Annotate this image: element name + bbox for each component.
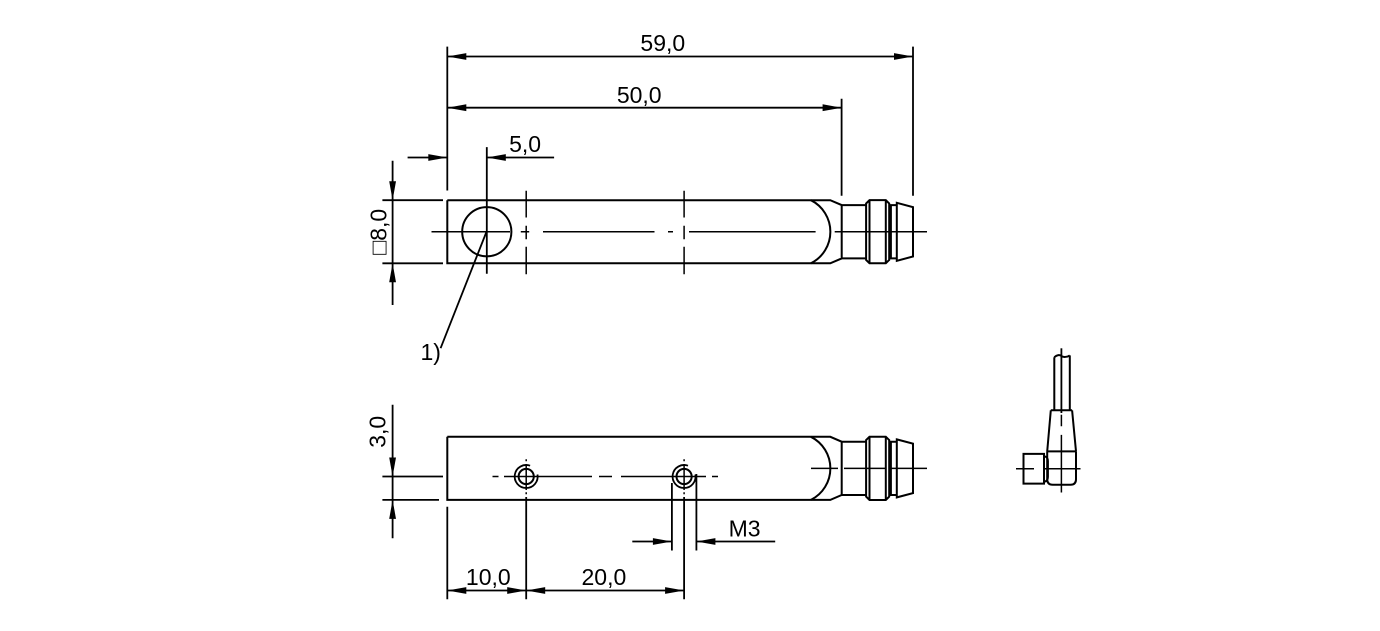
dimension 59,0 <box>447 30 913 196</box>
M3 hole 2 vertical axis <box>683 459 685 494</box>
leader 1) <box>421 232 487 365</box>
dimension 10,0 <box>447 497 526 599</box>
bottom view end-cap arc <box>811 437 830 500</box>
cable view vertical centerline <box>1060 415 1062 493</box>
M3 hole 2 inner circle <box>677 469 692 484</box>
M3 hole 1 vertical axis <box>525 459 527 494</box>
cable view horizontal centerline <box>1016 468 1081 470</box>
top view end-cap arc <box>811 200 830 263</box>
M3 hole 2 thread arc <box>673 465 696 488</box>
bottom view groove line <box>890 442 892 495</box>
svg-text:□8,0: □8,0 <box>366 209 392 255</box>
bottom view holes centerline <box>493 476 719 478</box>
cable view coupling ring <box>1044 456 1048 481</box>
M3 hole 1 inner circle <box>519 469 534 484</box>
svg-text:20,0: 20,0 <box>582 564 627 590</box>
svg-text:50,0: 50,0 <box>617 82 662 108</box>
cable view cable center line <box>1060 348 1062 413</box>
dimension 20,0 <box>526 497 684 599</box>
svg-text:59,0: 59,0 <box>640 30 685 56</box>
cable view cable <box>1054 355 1070 410</box>
top view mounting hole axis 1 <box>525 191 527 274</box>
top view connector tip <box>897 203 913 261</box>
svg-text:M3: M3 <box>729 516 761 542</box>
dimension square 8,0 <box>366 161 444 305</box>
top view circle axis vertical line <box>486 147 488 274</box>
top view groove line <box>890 205 892 258</box>
top view mounting hole axis 2 <box>683 191 685 274</box>
top view connector ring <box>866 200 889 263</box>
bottom view connector tip <box>897 439 913 497</box>
dimension M3 <box>632 474 775 551</box>
cable view connector body <box>1047 451 1076 484</box>
dimension 3,0 <box>365 405 444 539</box>
dimension 5,0 <box>408 131 554 161</box>
bottom view connector ring <box>866 437 889 500</box>
svg-text:1): 1) <box>421 339 441 365</box>
top view body outline <box>447 200 897 263</box>
svg-text:10,0: 10,0 <box>466 564 511 590</box>
bottom view connector centerline <box>811 467 927 469</box>
M3 hole 1 thread arc <box>515 465 538 488</box>
top view sensing face circle <box>462 207 511 256</box>
dimension 50,0 <box>447 82 841 196</box>
bottom view body outline <box>447 437 897 500</box>
cable view strain relief <box>1047 410 1076 451</box>
svg-text:3,0: 3,0 <box>365 416 391 448</box>
top view horizontal centerline <box>432 231 928 233</box>
cable view M8 nut <box>1024 454 1045 484</box>
svg-text:5,0: 5,0 <box>509 131 541 157</box>
